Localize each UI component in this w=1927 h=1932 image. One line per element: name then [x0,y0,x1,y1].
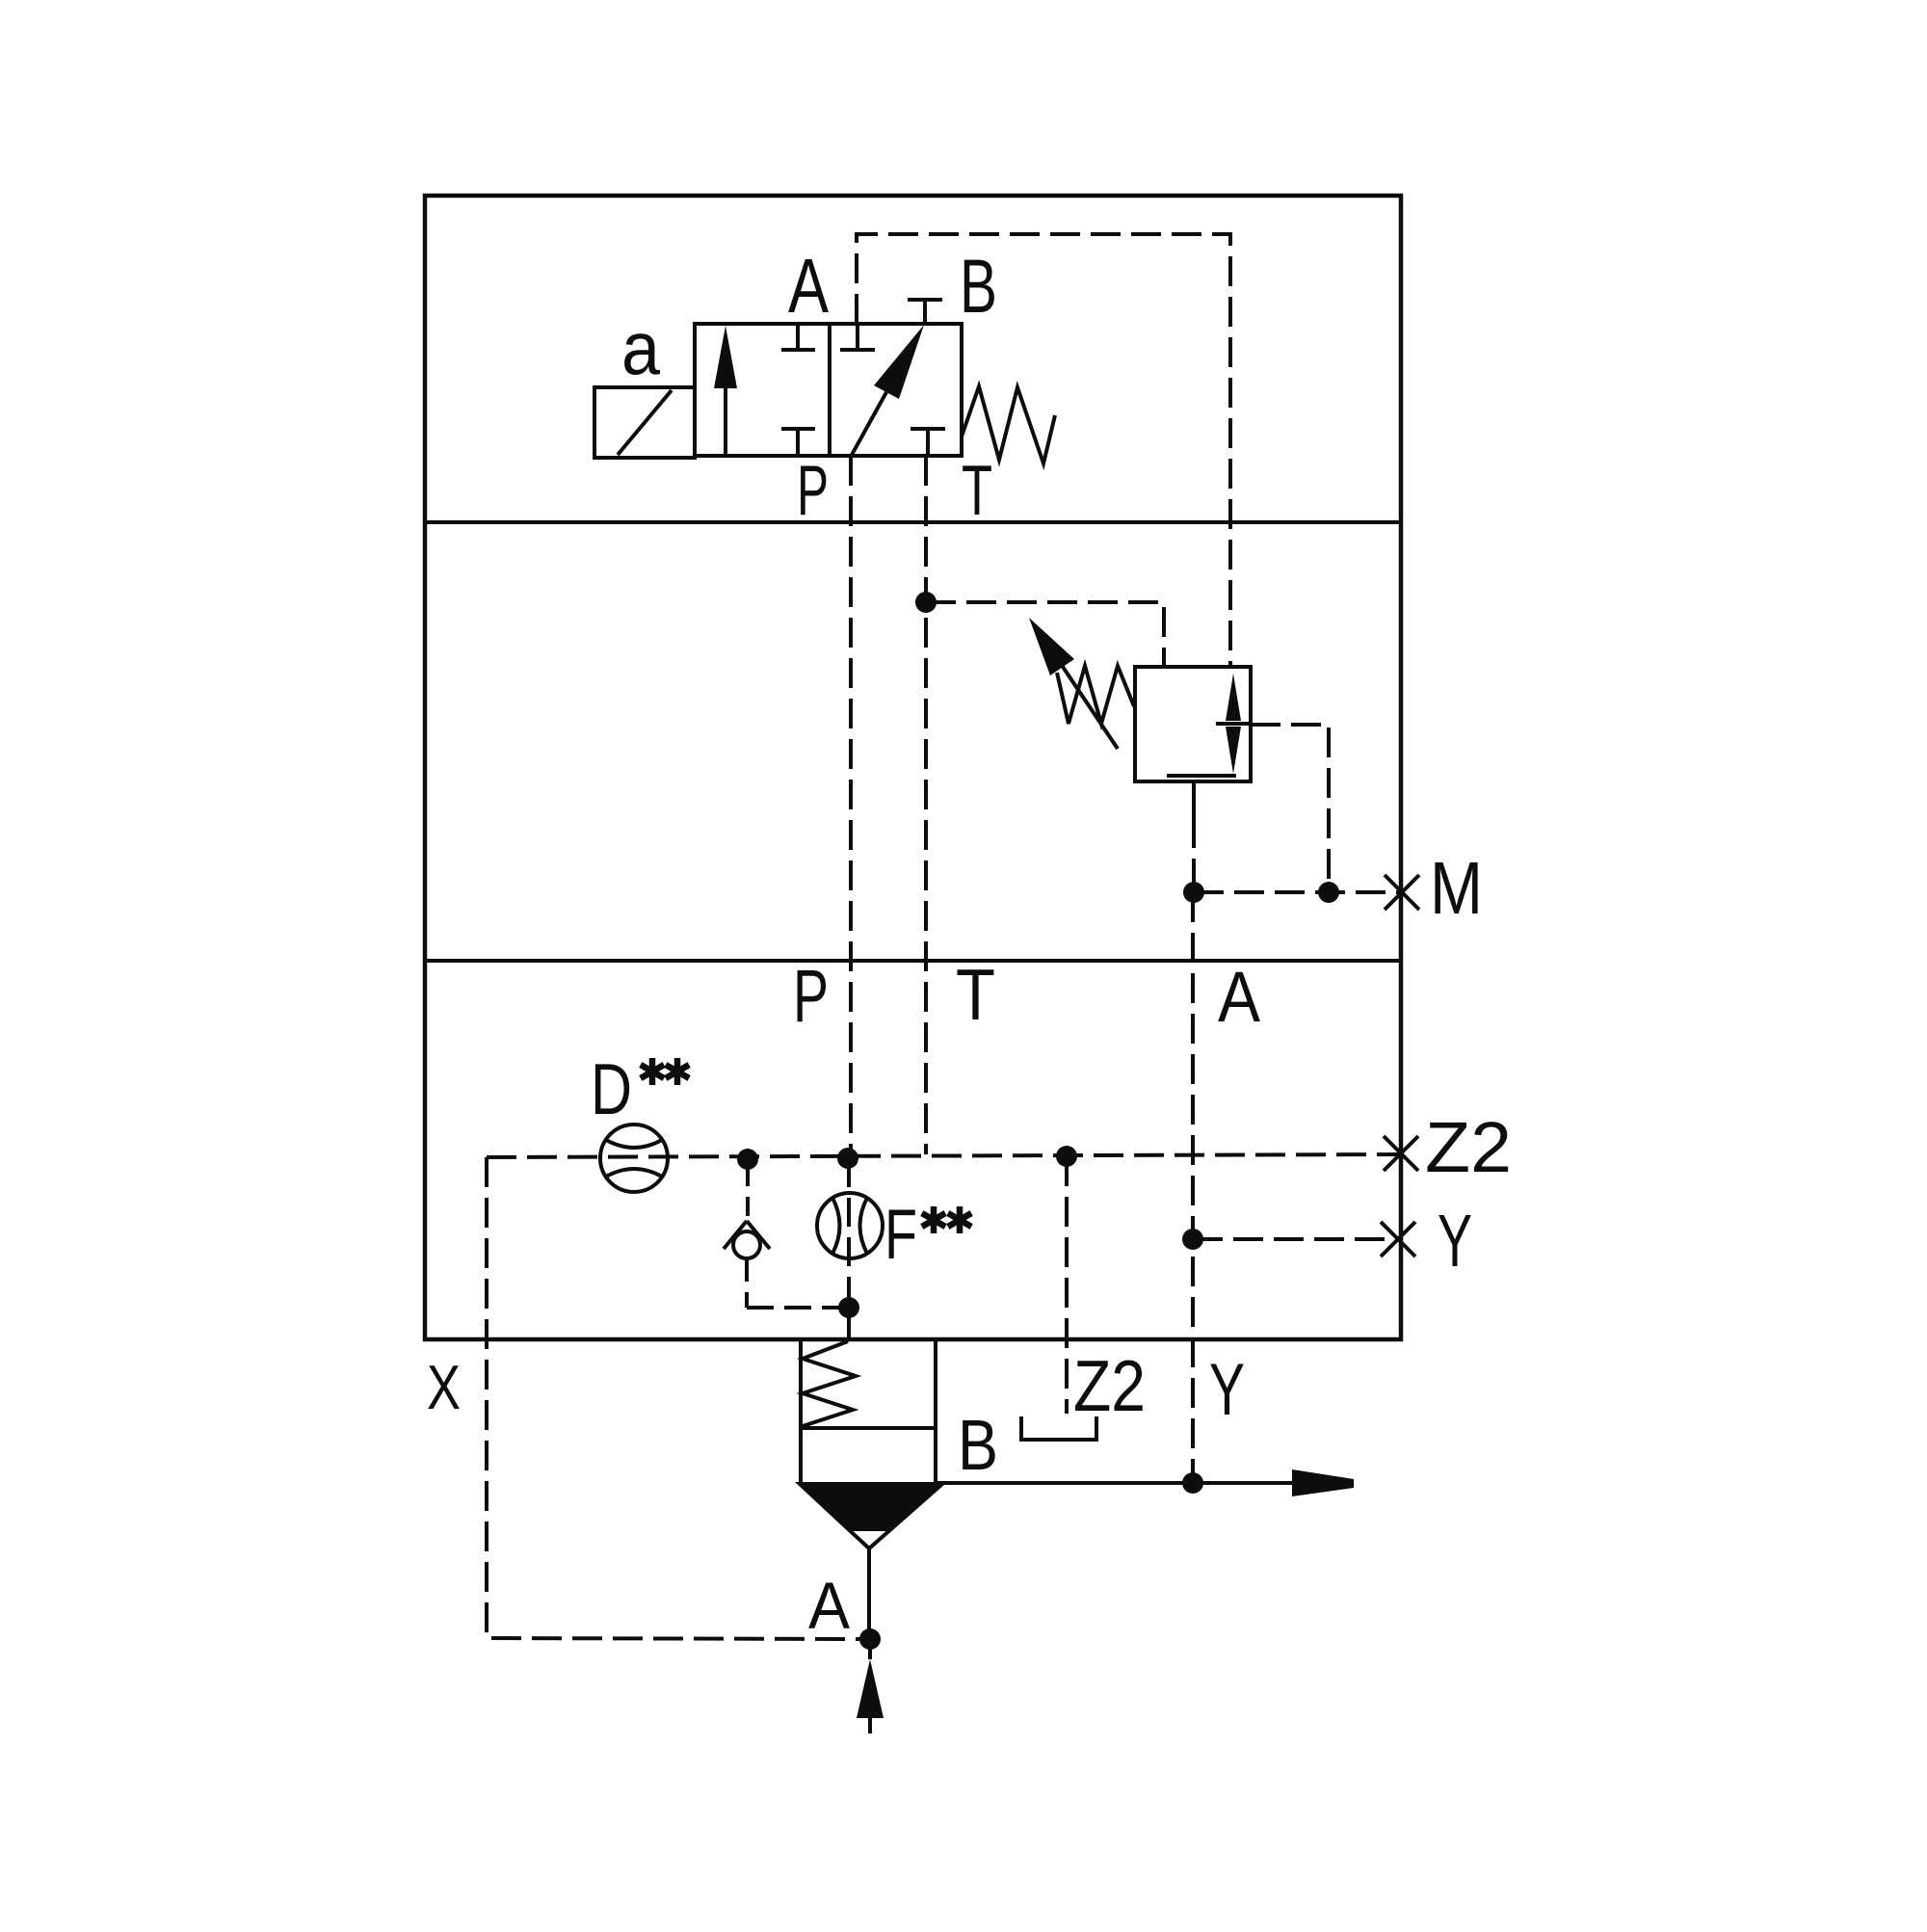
pressure relief valve RV1 body [1135,667,1251,781]
node M line right [1318,882,1339,903]
port M cross symbol [1385,875,1419,910]
orifice F** [817,1193,883,1258]
wire Y line, dashed [1193,1237,1401,1241]
svg-text:Z2: Z2 [1073,1345,1146,1426]
directional valve V1 body [695,324,962,456]
node M line left [1183,882,1204,903]
V1 left position blocked port bottom [781,429,815,456]
wire A stem [867,1547,871,1630]
svg-text:Y: Y [1209,1349,1245,1431]
svg-text:M: M [1430,847,1483,930]
svg-text:A: A [788,243,830,329]
node Z2 stub [1056,1146,1077,1167]
RV1 internal poppet double arrow [1167,674,1251,776]
pilot wire T to relief valve top, dashed [926,602,1164,667]
port Y cross symbol [1381,1222,1415,1257]
node D line / check valve [737,1149,758,1170]
svg-text:B: B [960,243,997,329]
svg-text:Z2: Z2 [1425,1107,1512,1187]
wire X line, dashed [487,1157,861,1639]
port Z2 cross symbol [1384,1136,1418,1171]
RV1 outlet stub down [1192,781,1196,821]
svg-text:T: T [962,452,992,530]
svg-text:T: T [956,954,995,1035]
V1 return spring [962,386,1055,463]
wire P to cartridge spring [847,1308,851,1339]
wire X/D/Z2 horizontal line, dashed [487,1154,1401,1157]
section divider line 1 [425,520,1401,524]
B flow arrow [1292,1469,1354,1496]
svg-text:F: F [884,1196,917,1274]
wire Z2 stub down, dashed [1065,1156,1069,1414]
pilot wire A-loop (valve A port to relief valve), dashed [857,234,1230,667]
svg-text:X: X [427,1352,461,1422]
node B line / Y line [1182,1472,1203,1494]
RV1 adjustable spring [1057,666,1134,724]
V1 port B stub [908,300,942,324]
wire B output line [936,1481,1292,1485]
wire A line (relief outlet down to B line), dashed [1191,892,1195,1483]
A flow arrow up [857,1649,884,1734]
RV1 adjustment arrow [1029,618,1118,749]
svg-text:A: A [808,1569,850,1643]
cartridge valve LV1 spring seat [801,1426,936,1430]
svg-text:A: A [1218,957,1261,1037]
svg-text:P: P [793,955,829,1038]
svg-text:a: a [621,305,661,390]
node on T line (pilot tap) [915,592,937,613]
node A junction [859,1628,881,1650]
solenoid actuator of valve V1 [594,387,695,458]
cartridge valve LV1 sleeve right [934,1339,937,1484]
node below F (P junction) [838,1297,859,1318]
cartridge valve LV1 sleeve left [799,1339,803,1484]
check valve CV1 [724,1159,849,1308]
node Y junction [1182,1229,1203,1250]
section divider line 2 [425,959,1401,963]
wire T line (valve T down), dashed [924,456,928,1154]
Z2 plug symbol [1021,1416,1096,1440]
node D line / P line [837,1148,858,1169]
V1 left position P-to-A arrow [714,326,737,456]
cartridge valve LV1 poppet [800,1484,942,1548]
wire P line through orifice F [847,1158,851,1308]
V1 right position P-to-B arrow [852,325,924,455]
V1 right position blocked port T [911,429,945,456]
svg-text:P: P [797,452,829,530]
manifold block outline [425,196,1401,1339]
wire M line, dashed [1194,890,1401,894]
cartridge valve LV1 spring [803,1341,856,1426]
svg-text:B: B [958,1405,998,1485]
RV1 side branch to M, dashed [1251,725,1329,892]
wire P line (valve P down), dashed [849,456,853,1160]
V1 left position blocked port top [781,324,815,350]
svg-text:Y: Y [1438,1200,1472,1283]
orifice D** [600,1125,668,1192]
V1 right position blocked port A [840,324,875,350]
svg-text:D: D [591,1048,632,1129]
